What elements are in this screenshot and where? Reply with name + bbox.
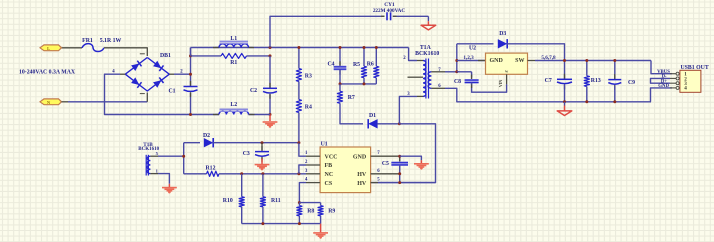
node: VCC junction: [297, 141, 300, 144]
svg-text:U2: U2: [469, 46, 476, 52]
wire: node to U2 pins 123: [457, 60, 486, 62]
svg-text:R4: R4: [305, 104, 312, 110]
node: C9 junctions: [613, 59, 616, 62]
svg-text:HV: HV: [357, 181, 367, 187]
capacitor C9: [614, 61, 616, 80]
svg-text:R7: R7: [348, 95, 355, 101]
ground at T1B: [168, 184, 170, 188]
transformer T1A pin4 stub: [408, 76, 424, 78]
ground at R9: [320, 224, 322, 233]
node: rail junction R3: [297, 46, 300, 49]
wire: D2 cathode to VCC node: [213, 142, 299, 144]
resistor R10: [241, 174, 243, 197]
wire: drain node to T1A pin3: [399, 96, 417, 123]
USB1 OUT connector box: [680, 70, 701, 92]
wire: output rail to VBUS: [651, 61, 672, 74]
wire: T1A pin6 to secondary ground rail: [445, 88, 651, 102]
wire: snubber bottom link: [340, 83, 376, 85]
T1B winding: [147, 156, 150, 173]
svg-text:4: 4: [684, 86, 687, 92]
svg-text:VCC: VCC: [325, 154, 338, 160]
node: R13 junctions: [585, 59, 588, 62]
svg-text:w: w: [505, 69, 508, 74]
capacitor C1: [190, 81, 192, 87]
node: C5 junctions: [398, 155, 401, 158]
svg-text:C9: C9: [628, 80, 635, 86]
IC U2 box: [486, 53, 528, 74]
bridge diode top-right arm: [153, 61, 161, 68]
wire: secondary node vertical: [456, 44, 458, 72]
svg-text:NC: NC: [325, 172, 334, 178]
node: R8 junction: [298, 201, 301, 204]
node: C3 junction: [261, 141, 264, 144]
svg-text:R9: R9: [328, 208, 335, 214]
wire: aux node vertical: [183, 143, 185, 174]
svg-text:2: 2: [403, 56, 406, 61]
bridge diode bottom-left arm: [131, 77, 139, 85]
node: C1 top junctions: [189, 54, 192, 57]
resistor R4: [298, 82, 300, 100]
wire: GND to ground rail: [651, 88, 673, 102]
svg-text:R10: R10: [223, 198, 233, 204]
resistor R12: [207, 171, 220, 176]
svg-text:C5: C5: [382, 161, 389, 167]
resistor R11: [262, 174, 264, 197]
wire: R7 to D1: [340, 103, 363, 124]
wire: D- D+ short: [651, 78, 671, 83]
node: rail junction R5: [363, 46, 366, 49]
svg-text:D3: D3: [499, 31, 506, 37]
diode D3: [498, 39, 507, 48]
svg-text:2: 2: [305, 160, 308, 165]
svg-text:C2: C2: [250, 88, 257, 94]
U1 pin stubs left: [306, 155, 320, 157]
bridge rectifier DB1: [125, 58, 169, 92]
wire: CY1 to ground: [427, 16, 429, 21]
svg-text:U1: U1: [321, 142, 328, 148]
wire: T1B pin1 to ground: [158, 174, 169, 184]
svg-text:5.1R 1W: 5.1R 1W: [100, 38, 122, 44]
svg-text:FB: FB: [325, 163, 333, 169]
capacitor C7: [564, 61, 566, 80]
bridge diode top-left arm: [131, 64, 139, 72]
resistor R7: [339, 84, 341, 91]
svg-text:BCK1610: BCK1610: [415, 51, 439, 57]
wire: D1 to drain node: [377, 123, 399, 125]
svg-text:5,6,7,8: 5,6,7,8: [541, 55, 556, 61]
node: R10 junction: [240, 172, 243, 175]
svg-text:GND: GND: [353, 154, 367, 160]
svg-text:C1: C1: [168, 88, 175, 94]
capacitor C3: [261, 143, 263, 151]
resistor R13: [586, 61, 588, 76]
wire: T1B pin5 to node: [158, 155, 184, 157]
inductor L1: [213, 47, 219, 49]
capacitor C8: [471, 72, 473, 78]
transformer core: [425, 59, 427, 99]
ground at primary DC- rail: [269, 115, 271, 122]
wire: bridge pin4 to DC- rail: [120, 73, 125, 75]
wire: U2 pins 5678 output: [528, 60, 536, 62]
svg-text:L2: L2: [230, 102, 237, 108]
svg-text:R5: R5: [353, 62, 360, 68]
wire: aux to D2: [184, 142, 200, 144]
ground at C7: [564, 106, 566, 111]
capacitor CY1: [381, 15, 385, 17]
U1 pin stubs right: [371, 155, 400, 157]
node: C7 junctions: [563, 59, 566, 62]
resistor R9: [320, 203, 322, 206]
transformer T1A secondary: [428, 72, 431, 89]
capacitor C4: [339, 48, 341, 67]
svg-text:C7: C7: [545, 78, 552, 84]
svg-text:R8: R8: [307, 208, 314, 214]
svg-text:SW: SW: [515, 58, 524, 64]
node: rail junction R6: [375, 46, 378, 49]
resistor R1: [190, 48, 192, 56]
svg-text:R1: R1: [230, 60, 237, 66]
wire: U1 GND to ground: [400, 156, 422, 160]
U2 bottom pin stub: [506, 74, 508, 84]
wire: R12 row to U1 pin3: [184, 173, 207, 175]
diode D1: [368, 119, 377, 128]
svg-text:USB1 OUT: USB1 OUT: [681, 65, 709, 71]
wire: T1A pin7 to node: [445, 71, 457, 73]
svg-text:C4: C4: [327, 62, 334, 68]
svg-text:GND: GND: [490, 58, 504, 64]
bridge AC mark top: [140, 53, 145, 55]
wire: fuse to bridge top: [104, 48, 147, 56]
svg-text:FR1: FR1: [82, 38, 93, 44]
svg-text:L: L: [47, 46, 50, 51]
node: R11 junction: [261, 172, 264, 175]
node: aux junction: [182, 155, 185, 158]
wire: bottom ground rail: [242, 223, 321, 225]
wire: FB pin link: [299, 165, 306, 174]
connector pin N: [40, 99, 62, 105]
resistor R3: [298, 48, 300, 69]
capacitor C2: [269, 83, 271, 89]
node: FB-NC junction: [297, 172, 300, 175]
svg-text:D2: D2: [203, 133, 210, 139]
diode D2: [204, 138, 213, 147]
wire: C1 vertical bus: [190, 48, 192, 87]
ground at U1 GND: [420, 160, 422, 163]
capacitor C5: [399, 156, 401, 161]
wire: bridge pin2 to C1 node: [169, 73, 174, 75]
node: secondary junctions: [455, 59, 458, 62]
svg-text:1,2,3: 1,2,3: [463, 55, 474, 61]
wire: VCC node to U1 pin1: [299, 143, 306, 157]
node: bottom rail junction at C2: [269, 113, 272, 116]
wire: U2 bottom pin to C8: [472, 84, 507, 92]
svg-text:R12: R12: [206, 165, 216, 171]
svg-text:R6: R6: [367, 61, 374, 67]
wire: R4 to VCC node: [298, 113, 300, 143]
node: rail junction C4: [339, 46, 342, 49]
wire: C2 vertical: [269, 56, 271, 88]
wire: R12 to NC pin: [219, 173, 306, 175]
resistor R6: [375, 48, 377, 67]
T1B core: [145, 155, 147, 176]
svg-text:D1: D1: [369, 113, 376, 119]
svg-text:L1: L1: [230, 36, 237, 42]
svg-text:R11: R11: [271, 198, 281, 204]
IC U1 box: [320, 147, 371, 193]
wire: D3 branch: [457, 43, 494, 45]
wire: top DC+ rail: [191, 47, 409, 49]
svg-text:222M 400VAC: 222M 400VAC: [373, 8, 406, 14]
bridge AC mark bottom: [140, 93, 145, 95]
wire: drain node to U1 HV: [371, 124, 436, 183]
svg-text:DB1: DB1: [160, 53, 171, 59]
svg-text:GND: GND: [658, 84, 669, 89]
svg-text:VIN: VIN: [498, 80, 503, 87]
resistor R5: [363, 48, 365, 67]
inductor L2: [249, 114, 271, 116]
resistor R8: [298, 203, 300, 206]
wire: D3 cathode to output node: [507, 44, 565, 61]
wire: L pin to fuse FR1: [62, 47, 83, 49]
fuse resistor FR1 symbol: [82, 44, 104, 52]
svg-text:C3: C3: [243, 151, 250, 157]
svg-text:HV: HV: [357, 172, 367, 178]
wire: N pin to bridge bottom: [62, 101, 69, 103]
USB connector pin stubs: [670, 73, 676, 75]
wire: CS pin to R8 R9: [299, 183, 306, 203]
ground (earth) at CY1: [427, 21, 429, 25]
connector pin L: [40, 45, 62, 51]
wire: R8 R9 top link: [299, 202, 320, 204]
svg-text:CS: CS: [325, 181, 333, 187]
node: R1 right junctions: [269, 46, 272, 49]
node: drain junction: [398, 122, 401, 125]
svg-text:C8: C8: [454, 79, 461, 85]
node: bottom rail junctions: [261, 222, 264, 225]
svg-text:R3: R3: [305, 74, 312, 80]
svg-text:R13: R13: [591, 78, 601, 84]
bridge diode bottom-right arm: [153, 80, 161, 88]
wire: rail to T1A pin2: [409, 48, 417, 61]
svg-text:10-240VAC 0.3A MAX: 10-240VAC 0.3A MAX: [19, 70, 76, 76]
ground at C3: [261, 159, 263, 165]
wire: CY1 riser and top wire: [270, 16, 385, 47]
